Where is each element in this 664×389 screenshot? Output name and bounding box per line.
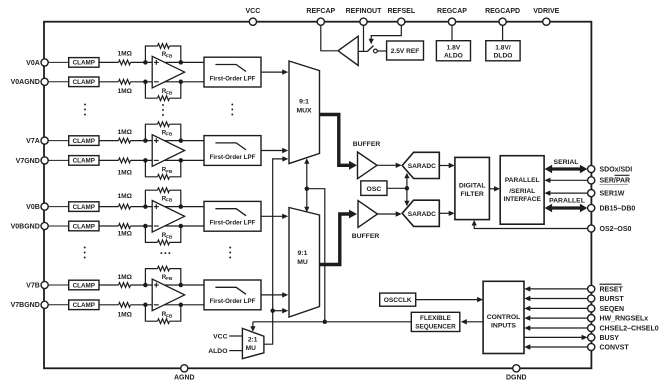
- mux 9:1 MUX B: [289, 208, 320, 318]
- svg-text:INPUTS: INPUTS: [491, 323, 516, 330]
- pin SDOx/SDI: [588, 165, 633, 173]
- node ch4 output bottom: [179, 303, 184, 308]
- svg-text:OSCCLK: OSCCLK: [384, 297, 412, 304]
- filter First-Order LPF ch3: [204, 201, 261, 231]
- svg-text:PARALLEL: PARALLEL: [549, 197, 585, 204]
- wire OSC to SARADC A: [404, 173, 409, 189]
- svg-text:REFCAP: REFCAP: [306, 8, 335, 15]
- clamp block ch2 bottom: [69, 156, 99, 166]
- svg-text:SER1W: SER1W: [600, 191, 625, 198]
- wire filter to interface: [489, 186, 500, 191]
- op-amp buffer B: [352, 201, 380, 240]
- svg-text:OS2–OS0: OS2–OS0: [600, 226, 632, 233]
- resistor 1M ch4 top: [117, 274, 132, 287]
- svg-text:CLAMP: CLAMP: [73, 158, 95, 165]
- node ch4 input top: [143, 283, 148, 288]
- svg-text:BURST: BURST: [600, 296, 625, 303]
- svg-text:FILTER: FILTER: [461, 191, 484, 198]
- wire clamp to resistor ch1 bottom: [99, 81, 119, 83]
- wire clamp to resistor ch2 bottom: [99, 159, 119, 161]
- wire REFSEL control: [371, 25, 401, 40]
- mux 9:1 MUX A: [289, 61, 320, 164]
- svg-text:SDOx/SDI: SDOx/SDI: [600, 166, 633, 173]
- svg-text:/SERIAL: /SERIAL: [509, 188, 535, 195]
- adc SARADC B: [402, 200, 439, 226]
- wire V input ch2 bottom: [48, 159, 69, 161]
- node ch2 output bottom: [179, 158, 184, 163]
- pin V0B: [26, 203, 48, 211]
- clamp block ch3 bottom: [69, 221, 99, 231]
- wire feedback loop ch3 bottom: [145, 226, 180, 242]
- bus SERIAL bidirectional: [545, 165, 588, 173]
- svg-text:REGCAPD: REGCAPD: [485, 8, 520, 15]
- pin REGCAPD: [485, 8, 520, 25]
- arrow aux into MUX A: [282, 156, 288, 161]
- node ch2 input bottom: [143, 158, 148, 163]
- label ALDO aux input: [208, 348, 227, 355]
- pin DB15-DB0: [588, 204, 636, 212]
- bus MUX B to buffer B: [320, 210, 358, 265]
- svg-text:SEQUENCER: SEQUENCER: [415, 323, 456, 330]
- svg-text:SER/PAR: SER/PAR: [600, 178, 631, 185]
- bus MUX A to buffer A: [320, 115, 358, 170]
- op-amp PGA ch2: [152, 135, 184, 167]
- svg-text:BUFFER: BUFFER: [352, 233, 380, 240]
- svg-text:2:1: 2:1: [248, 336, 258, 343]
- wire feedback loop ch4 top: [145, 269, 180, 285]
- clamp block ch1 bottom: [69, 77, 99, 87]
- node ch3 output top: [179, 204, 184, 209]
- bus PARALLEL bidirectional: [545, 204, 588, 212]
- block OSCCLK: [380, 293, 416, 306]
- op-amp buffer A: [353, 141, 381, 179]
- svg-text:OSC: OSC: [367, 186, 382, 193]
- wire feedback loop ch2 top: [145, 124, 180, 140]
- wire SER/PAR input: [544, 178, 587, 183]
- svg-text:V7BGND: V7BGND: [11, 302, 40, 309]
- wire resistor to amp ch2 top: [131, 140, 205, 142]
- node ch2 output top: [179, 138, 184, 143]
- block CONTROL INPUTS: [483, 281, 524, 353]
- wire CONVST to control inputs: [524, 344, 587, 349]
- svg-text:First-Order LPF: First-Order LPF: [210, 75, 256, 82]
- wire LPF ch4 to MUX B: [261, 292, 288, 297]
- wire feedback loop ch1 top: [145, 46, 180, 62]
- svg-text:DIGITAL: DIGITAL: [459, 182, 486, 189]
- ellipsis group A lpf column: [231, 104, 233, 116]
- svg-text:V7B: V7B: [26, 282, 40, 289]
- pin REFSEL: [387, 8, 415, 25]
- pin V0BGND: [11, 222, 49, 230]
- pin AGND: [174, 365, 195, 382]
- pin REFINOUT: [346, 8, 383, 25]
- node ch3 output bottom: [179, 224, 184, 229]
- svg-text:1MΩ: 1MΩ: [117, 311, 132, 318]
- filter First-Order LPF ch1: [204, 57, 261, 87]
- node aux branch: [270, 308, 275, 313]
- svg-text:SARADC: SARADC: [408, 163, 436, 170]
- node ch2 input top: [143, 138, 148, 143]
- pin V0A: [26, 59, 48, 67]
- svg-text:First-Order LPF: First-Order LPF: [210, 154, 256, 161]
- node ch1 input bottom: [143, 80, 148, 85]
- wire REFCAP to ref buffer output: [321, 25, 337, 51]
- ellipsis group A amp column: [162, 104, 164, 116]
- wire OSC to SARADC B: [404, 188, 409, 206]
- ellipsis group A clamp column: [84, 104, 86, 116]
- filter First-Order LPF ch2: [204, 136, 261, 166]
- wire V input ch4 top: [48, 284, 69, 286]
- svg-text:2.5V REF: 2.5V REF: [391, 48, 420, 55]
- svg-text:DB15–DB0: DB15–DB0: [600, 205, 636, 212]
- wire clamp to resistor ch3 bottom: [99, 225, 119, 227]
- svg-text:First-Order LPF: First-Order LPF: [210, 220, 256, 227]
- wire LPF ch1 to MUX A: [261, 69, 288, 74]
- pin V7B: [26, 281, 48, 289]
- pin SEQEN: [588, 305, 624, 313]
- label VCC aux input: [213, 333, 227, 340]
- resistor 1M ch2 bottom: [117, 158, 132, 177]
- op-amp PGA ch1: [152, 56, 184, 88]
- clamp block ch4 top: [69, 280, 99, 290]
- block FLEXIBLE SEQUENCER: [411, 312, 460, 331]
- svg-text:1MΩ: 1MΩ: [117, 231, 132, 238]
- wire feedback loop ch2 bottom: [145, 160, 180, 176]
- node select tee: [305, 186, 310, 191]
- wire LPF ch2 to MUX A: [261, 148, 288, 153]
- clamp block ch1 top: [69, 58, 99, 68]
- resistor RFB ch1 top: [158, 44, 173, 59]
- svg-text:1MΩ: 1MΩ: [117, 88, 132, 95]
- wire feedback loop ch1 bottom: [145, 82, 180, 98]
- svg-text:1.8V: 1.8V: [447, 44, 461, 51]
- resistor 1M ch2 top: [117, 129, 132, 143]
- node ch4 input bottom: [143, 303, 148, 308]
- svg-text:9:1: 9:1: [298, 250, 308, 257]
- svg-text:CLAMP: CLAMP: [73, 282, 95, 289]
- wire resistor to amp ch1 bottom: [131, 81, 205, 83]
- wire feedback loop ch3 top: [145, 190, 180, 206]
- svg-text:AGND: AGND: [174, 375, 195, 382]
- wire BUSY to control inputs: [524, 335, 588, 340]
- resistor RFB ch1 bottom: [158, 88, 173, 101]
- wire V input ch4 bottom: [48, 304, 69, 306]
- wire feedback loop ch4 bottom: [145, 305, 180, 321]
- resistor RFB ch4 top: [158, 266, 173, 281]
- clamp block ch3 top: [69, 202, 99, 212]
- mux 2:1 MUX aux: [242, 328, 264, 358]
- pin V7BGND: [11, 301, 49, 309]
- node ch1 input top: [143, 60, 148, 65]
- resistor RFB ch4 bottom: [158, 311, 173, 324]
- filter First-Order LPF ch4: [204, 280, 261, 310]
- chip boundary box: [44, 22, 591, 369]
- resistor 1M ch1 top: [117, 51, 132, 65]
- wire aux to MUX B: [273, 308, 289, 313]
- resistor RFB ch3 top: [158, 188, 173, 203]
- wire REGCAP to ALDO: [451, 25, 453, 41]
- svg-text:CLAMP: CLAMP: [73, 79, 95, 86]
- svg-text:SEQEN: SEQEN: [600, 306, 625, 313]
- wire control inputs to sequencer: [461, 319, 483, 324]
- arrow REFSEL to switch: [369, 39, 374, 45]
- svg-text:1MΩ: 1MΩ: [117, 193, 132, 200]
- wire resistor to amp ch4 top: [131, 284, 205, 286]
- pin REFCAP: [306, 8, 335, 25]
- wire V input ch3 top: [48, 206, 69, 208]
- block OSC: [361, 181, 387, 196]
- svg-text:CLAMP: CLAMP: [73, 138, 95, 145]
- resistor RFB ch2 bottom: [158, 167, 173, 180]
- wire SER1W input: [544, 190, 587, 195]
- svg-text:MUX: MUX: [296, 108, 312, 115]
- pin BUSY: [588, 334, 620, 342]
- wire resistor to amp ch1 top: [131, 61, 205, 63]
- pin DGND: [506, 365, 527, 382]
- wire RESET to control inputs: [524, 286, 587, 291]
- wire clamp to resistor ch1 top: [99, 61, 119, 63]
- wire VCC to 2:1 mux: [229, 335, 242, 337]
- pin REGCAP: [437, 8, 467, 25]
- wire V input ch1 top: [48, 61, 69, 63]
- wire OSCCLK to control inputs: [416, 297, 483, 302]
- node ch4 output top: [179, 283, 184, 288]
- svg-text:VDRIVE: VDRIVE: [533, 8, 559, 15]
- ellipsis group B clamp column: [84, 247, 86, 259]
- wire buffer B to SARADC B: [378, 211, 402, 216]
- op-amp PGA ch4: [152, 279, 184, 311]
- ellipsis group B amp column: [160, 252, 170, 254]
- wire SEQEN to control inputs: [524, 306, 587, 311]
- svg-text:CHSEL2–CHSEL0: CHSEL2–CHSEL0: [600, 325, 659, 332]
- wire REFINOUT to buffer input: [358, 25, 363, 51]
- wire buffer A to SARADC A: [377, 163, 402, 168]
- wire V input ch2 top: [48, 140, 69, 142]
- pin VDRIVE: [533, 8, 559, 25]
- op-amp PGA ch3: [152, 201, 184, 233]
- svg-text:RESET: RESET: [600, 286, 624, 293]
- svg-text:V7GND: V7GND: [16, 158, 40, 165]
- wire resistor to amp ch2 bottom: [131, 159, 205, 161]
- svg-text:V7A: V7A: [26, 138, 40, 145]
- block 2.5V REF: [387, 41, 424, 60]
- block PARALLEL/SERIAL INTERFACE: [500, 156, 544, 225]
- wire clamp to resistor ch4 bottom: [99, 304, 119, 306]
- svg-text:ALDO: ALDO: [444, 53, 463, 60]
- svg-text:MU: MU: [246, 345, 256, 352]
- svg-text:REFINOUT: REFINOUT: [346, 8, 383, 15]
- pin HW_RNGSELx: [588, 315, 649, 323]
- wire BURST to control inputs: [524, 296, 587, 301]
- wire SARADC B to filter: [439, 211, 454, 216]
- clamp block ch2 top: [69, 136, 99, 146]
- block 1.8V ALDO: [436, 41, 470, 61]
- wire select to 2:1 mux: [250, 322, 255, 332]
- svg-text:SARADC: SARADC: [408, 211, 436, 218]
- wire mux select horizontal: [253, 321, 411, 323]
- node ch3 input bottom: [143, 224, 148, 229]
- svg-text:CLAMP: CLAMP: [73, 223, 95, 230]
- svg-text:VCC: VCC: [246, 8, 261, 15]
- resistor RFB ch2 top: [158, 122, 173, 137]
- switch SW1 contact: [374, 49, 378, 53]
- node OSC branch: [405, 186, 410, 191]
- svg-text:PARALLEL: PARALLEL: [505, 177, 540, 184]
- wire resistor to amp ch3 top: [131, 206, 205, 208]
- wire switch to 2.5V REF: [377, 50, 386, 52]
- svg-text:INTERFACE: INTERFACE: [504, 196, 542, 203]
- wire OSC output: [387, 187, 407, 189]
- pin RESET: [588, 284, 624, 293]
- svg-text:SERIAL: SERIAL: [554, 159, 579, 166]
- svg-text:BUSY: BUSY: [600, 335, 620, 342]
- node ch1 output top: [179, 60, 184, 65]
- node ch1 output bottom: [179, 80, 184, 85]
- wire SARADC A to filter: [439, 163, 454, 168]
- label SERIAL: [554, 159, 579, 166]
- svg-text:CLAMP: CLAMP: [73, 204, 95, 211]
- pin V7A: [26, 137, 48, 145]
- adc SARADC A: [402, 152, 439, 178]
- svg-text:V0BGND: V0BGND: [11, 223, 40, 230]
- switch SW1 lever: [367, 46, 373, 52]
- resistor 1M ch3 top: [117, 193, 132, 209]
- wire buffer input to switch pole: [364, 50, 368, 52]
- svg-text:CONVST: CONVST: [600, 344, 630, 351]
- wire aux mux output: [264, 159, 283, 344]
- op-amp reference buffer: [338, 36, 358, 65]
- svg-text:MU: MU: [297, 259, 308, 266]
- svg-text:DGND: DGND: [506, 375, 527, 382]
- wire resistor to amp ch3 bottom: [131, 225, 205, 227]
- svg-text:FLEXIBLE: FLEXIBLE: [420, 315, 452, 322]
- svg-text:CLAMP: CLAMP: [73, 60, 95, 67]
- resistor RFB ch3 bottom: [158, 232, 173, 245]
- resistor 1M ch3 bottom: [117, 224, 132, 238]
- svg-text:9:1: 9:1: [299, 99, 309, 106]
- resistor 1M ch1 bottom: [117, 79, 132, 94]
- svg-text:First-Order LPF: First-Order LPF: [210, 298, 256, 305]
- clamp block ch4 bottom: [69, 300, 99, 310]
- svg-text:V0A: V0A: [26, 60, 40, 67]
- svg-text:V0AGND: V0AGND: [11, 79, 40, 86]
- node select branch: [323, 320, 328, 325]
- wire CHSEL2-CHSEL0 to control inputs: [524, 325, 587, 330]
- pin CHSEL2-CHSEL0: [588, 324, 659, 332]
- pin VCC: [246, 8, 261, 25]
- node ch3 input top: [143, 204, 148, 209]
- pin V0AGND: [11, 78, 49, 86]
- wire OS2-OS0 to filter: [472, 220, 588, 229]
- svg-text:REGCAP: REGCAP: [437, 8, 467, 15]
- svg-text:BUFFER: BUFFER: [353, 141, 381, 148]
- resistor 1M ch4 bottom: [117, 302, 132, 318]
- svg-text:VCC: VCC: [213, 333, 227, 340]
- svg-text:1MΩ: 1MΩ: [117, 129, 132, 136]
- wire select to MUX A: [304, 158, 309, 189]
- wire V input ch3 bottom: [48, 225, 69, 227]
- svg-text:1MΩ: 1MΩ: [117, 274, 132, 281]
- svg-text:HW_RNGSELx: HW_RNGSELx: [600, 316, 649, 323]
- pin SER/PAR: [588, 175, 631, 184]
- wire ALDO to 2:1 mux: [229, 350, 242, 352]
- wire LPF ch3 to MUX B: [261, 214, 288, 219]
- svg-text:ALDO: ALDO: [208, 348, 227, 355]
- svg-text:REFSEL: REFSEL: [387, 8, 415, 15]
- wire select to MUX B: [304, 189, 309, 213]
- svg-text:CLAMP: CLAMP: [73, 302, 95, 309]
- wire clamp to resistor ch4 top: [99, 284, 119, 286]
- block DIGITAL FILTER: [455, 157, 490, 219]
- wire REGCAPD to DLDO: [502, 25, 504, 41]
- wire clamp to resistor ch2 top: [99, 140, 119, 142]
- pin BURST: [588, 295, 625, 303]
- pin V7GND: [16, 157, 49, 165]
- wire V input ch1 bottom: [48, 81, 69, 83]
- pin CONVST: [588, 343, 630, 351]
- svg-text:DLDO: DLDO: [494, 53, 513, 60]
- wire resistor to amp ch4 bottom: [131, 304, 205, 306]
- svg-text:1MΩ: 1MΩ: [117, 51, 132, 58]
- wire select riser: [307, 189, 325, 322]
- block 1.8V DLDO: [486, 41, 520, 61]
- wire HW_RNGSELx to control inputs: [524, 315, 587, 320]
- ellipsis group B lpf column: [229, 247, 231, 259]
- pin OS2-OS0: [588, 225, 632, 233]
- svg-text:CONTROL: CONTROL: [487, 314, 521, 321]
- label PARALLEL: [549, 197, 585, 204]
- pin SER1W: [588, 190, 625, 198]
- svg-text:1.8V/: 1.8V/: [495, 44, 511, 51]
- svg-text:1MΩ: 1MΩ: [117, 170, 132, 177]
- svg-text:V0B: V0B: [26, 204, 40, 211]
- wire clamp to resistor ch3 top: [99, 206, 119, 208]
